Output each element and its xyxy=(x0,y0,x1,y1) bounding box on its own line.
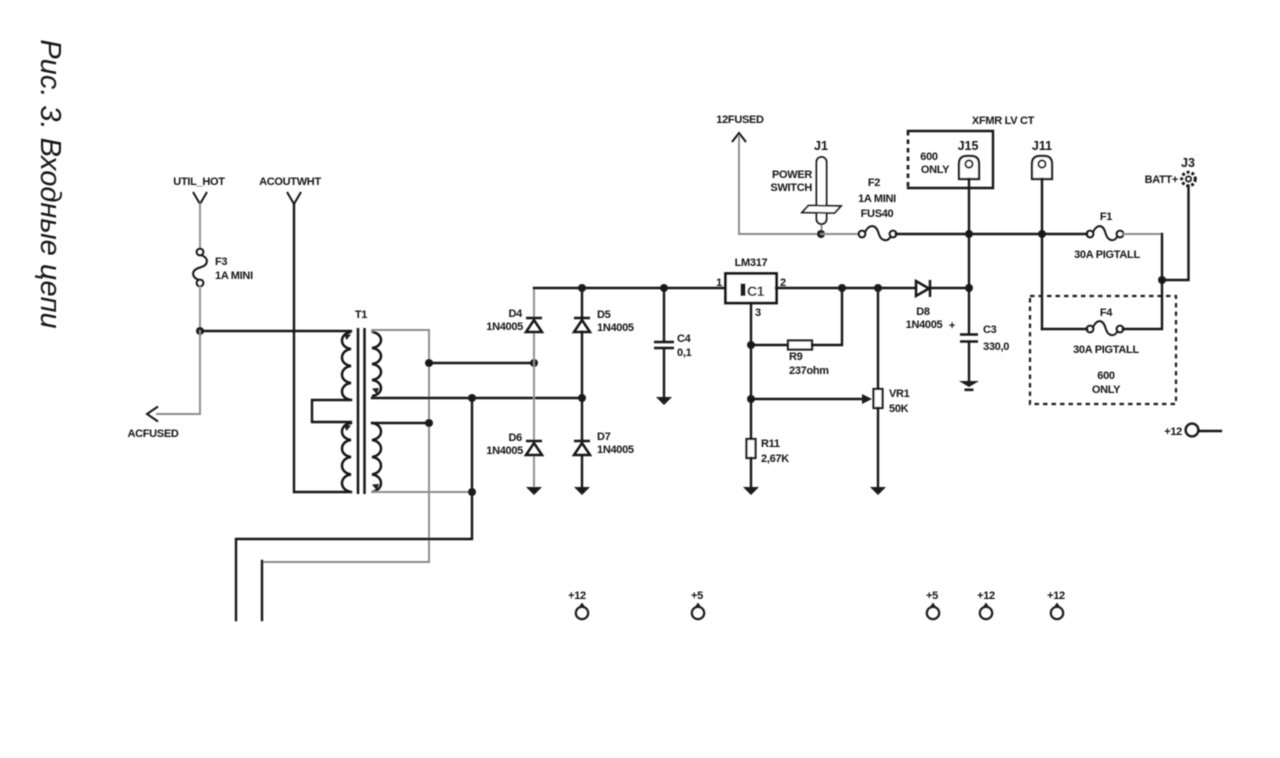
svg-text:SWITCH: SWITCH xyxy=(770,182,812,194)
wire corner down to junction xyxy=(1161,234,1163,280)
ground under C3 xyxy=(959,381,979,391)
node junction F1/F4/J3 xyxy=(1158,276,1166,284)
wire D4 branch (gray) xyxy=(533,288,535,318)
svg-text:FUS40: FUS40 xyxy=(861,208,894,220)
svg-text:R11: R11 xyxy=(761,438,780,450)
ground under C4 xyxy=(656,397,672,405)
wire bottom secondary top terminal xyxy=(372,422,429,424)
potentiometer VR1 xyxy=(874,288,910,487)
svg-text:1N4005: 1N4005 xyxy=(597,322,634,334)
node ACFUSED xyxy=(127,428,178,440)
wire IC1 pin3 down xyxy=(750,303,752,399)
svg-text:F3: F3 xyxy=(215,256,227,268)
node junction J1 xyxy=(817,230,825,238)
wire IC1 pin2 to D8 xyxy=(776,287,916,289)
wire to ACFUSED xyxy=(147,331,200,422)
svg-text:ONLY: ONLY xyxy=(921,164,950,176)
capacitor C4 xyxy=(654,288,692,397)
svg-text:D7: D7 xyxy=(597,431,611,443)
svg-text:1N4005: 1N4005 xyxy=(597,444,634,456)
svg-text:+: + xyxy=(949,320,955,332)
connector J15 xyxy=(958,139,979,288)
node junction R11/VR1 arrow xyxy=(747,395,755,403)
svg-text:D8: D8 xyxy=(916,306,930,318)
wire main rail to IC1 xyxy=(534,287,725,289)
XFMR LV CT box xyxy=(908,115,1035,188)
svg-text:J3: J3 xyxy=(1181,156,1195,170)
svg-text:600: 600 xyxy=(1097,370,1115,382)
node junction secondary mid xyxy=(468,394,476,402)
node ACOUTWHT xyxy=(259,176,321,204)
svg-text:30A PIGTALL: 30A PIGTALL xyxy=(1074,249,1140,261)
node junction center tap xyxy=(468,488,476,496)
svg-text:LM317: LM317 xyxy=(735,257,768,269)
test point +12 b xyxy=(977,590,995,619)
node junction gray to D4 xyxy=(425,359,433,367)
fuse F1 xyxy=(1074,211,1140,261)
svg-text:C3: C3 xyxy=(983,324,997,336)
wire UTIL_HOT to F3 xyxy=(199,204,201,249)
svg-text:ONLY: ONLY xyxy=(1092,384,1121,396)
transformer T1 xyxy=(312,309,381,494)
wire center tap down xyxy=(236,398,472,620)
wire wiper arrow to VR1 xyxy=(751,394,872,404)
svg-text:50K: 50K xyxy=(889,403,909,415)
connector J3 BATT+ xyxy=(1145,156,1196,280)
svg-text:XFMR LV CT: XFMR LV CT xyxy=(972,115,1035,127)
svg-text:C1: C1 xyxy=(747,283,765,299)
wire secondary top loop (gray) xyxy=(262,330,429,562)
svg-text:F2: F2 xyxy=(868,177,880,189)
svg-text:1A MINI: 1A MINI xyxy=(215,270,253,282)
wire gray junction to D4 line xyxy=(429,362,534,364)
node junction C4 top xyxy=(660,284,668,292)
svg-text:1A MINI: 1A MINI xyxy=(858,193,896,205)
node junction R9 top xyxy=(838,284,846,292)
wire F1 to corner (gray) xyxy=(1123,233,1162,235)
resistor R11 xyxy=(747,399,790,487)
svg-text:1N4005: 1N4005 xyxy=(486,321,523,333)
ground under D6 xyxy=(526,487,542,495)
svg-text:R9: R9 xyxy=(789,351,803,363)
fuse F2 xyxy=(858,177,896,240)
svg-text:J11: J11 xyxy=(1032,139,1052,153)
node junction D7 top xyxy=(578,394,586,402)
diode D5 xyxy=(574,309,634,334)
test point +5 a xyxy=(691,590,704,619)
svg-text:30A PIGTALL: 30A PIGTALL xyxy=(1073,344,1139,356)
svg-text:3: 3 xyxy=(755,307,761,319)
svg-text:ACFUSED: ACFUSED xyxy=(127,428,178,440)
op-amp U1 regulator LM317 IC1 xyxy=(726,257,777,303)
svg-text:J1: J1 xyxy=(814,139,828,153)
node junction J15 line xyxy=(965,230,973,238)
diode D6 xyxy=(486,432,542,457)
terminal +12 right xyxy=(1164,424,1221,438)
svg-text:ACOUTWHT: ACOUTWHT xyxy=(259,176,321,188)
svg-text:T1: T1 xyxy=(355,309,367,321)
svg-text:Рис. 3. Входные цепи: Рис. 3. Входные цепи xyxy=(34,39,66,328)
svg-text:POWER: POWER xyxy=(772,169,812,181)
connector J1 POWER SWITCH xyxy=(770,139,841,234)
node 12FUSED xyxy=(716,114,821,234)
svg-text:+12: +12 xyxy=(1047,590,1065,602)
svg-text:330,0: 330,0 xyxy=(983,341,1009,353)
svg-text:1N4005: 1N4005 xyxy=(906,319,943,331)
svg-text:D4: D4 xyxy=(509,308,524,320)
node junction VR1 top xyxy=(874,284,882,292)
ground under R11 xyxy=(743,487,759,495)
test point +5 b xyxy=(926,590,939,619)
wire D5 branch xyxy=(581,288,583,318)
diode D7 xyxy=(574,431,634,456)
svg-text:+5: +5 xyxy=(926,590,938,602)
fuse F4 xyxy=(1042,280,1162,335)
node junction D5 top xyxy=(578,284,586,292)
node junction J11 line xyxy=(1038,230,1046,238)
svg-text:J15: J15 xyxy=(958,139,979,153)
svg-text:600: 600 xyxy=(920,151,938,163)
connector J11 xyxy=(1032,139,1052,329)
svg-text:BATT+: BATT+ xyxy=(1145,174,1178,186)
node UTIL_HOT xyxy=(173,176,225,204)
node junction pin3/R9 xyxy=(747,341,755,349)
svg-text:2,67K: 2,67K xyxy=(761,453,789,465)
diode D4 xyxy=(486,308,542,333)
svg-text:F4: F4 xyxy=(1100,307,1113,319)
svg-text:237ohm: 237ohm xyxy=(789,365,829,377)
svg-text:12FUSED: 12FUSED xyxy=(716,114,764,126)
svg-text:+12: +12 xyxy=(1164,426,1182,438)
wire F3 to junction xyxy=(199,286,201,331)
svg-text:C4: C4 xyxy=(677,333,692,345)
wire secondary mid to diodes xyxy=(372,397,582,399)
diode D8 xyxy=(906,280,969,331)
capacitor C3 xyxy=(949,288,1009,380)
dotted box 600 ONLY xyxy=(1030,296,1176,404)
node junction output/C3 xyxy=(965,284,973,292)
wire gray corner down-left xyxy=(261,561,263,620)
node junction UTIL_HOT/ACFUSED xyxy=(196,327,204,335)
resistor R9 xyxy=(751,288,842,377)
wire ACOUTWHT down xyxy=(294,204,351,492)
svg-text:0,1: 0,1 xyxy=(677,347,692,359)
ground under VR1 xyxy=(870,487,886,495)
svg-text:D5: D5 xyxy=(597,309,611,321)
caption xyxy=(34,39,66,328)
node junction D4 anode xyxy=(530,359,538,367)
ground under D7 xyxy=(574,487,590,495)
fuse F3 xyxy=(193,249,253,287)
svg-text:+5: +5 xyxy=(691,590,703,602)
svg-text:+12: +12 xyxy=(977,590,995,602)
svg-text:D6: D6 xyxy=(509,432,523,444)
test point +12 a xyxy=(568,590,588,619)
svg-text:UTIL_HOT: UTIL_HOT xyxy=(173,176,225,188)
node junction gray line xyxy=(425,419,433,427)
svg-text:1: 1 xyxy=(716,277,722,289)
svg-text:+12: +12 xyxy=(568,590,586,602)
wire junction to transformer primary top xyxy=(200,330,351,332)
svg-text:VR1: VR1 xyxy=(889,388,910,400)
test point +12 c xyxy=(1047,590,1065,619)
svg-text:F1: F1 xyxy=(1100,211,1112,223)
wire F2 to F1 xyxy=(896,233,1087,235)
wire bottom secondary bottom (gray) xyxy=(372,491,472,493)
wire J1 to F2 (gray) xyxy=(821,233,859,235)
svg-text:1N4005: 1N4005 xyxy=(486,445,523,457)
